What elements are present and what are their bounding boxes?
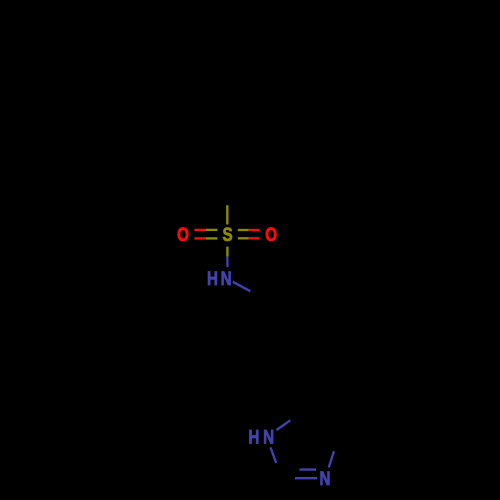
svg-text:H: H xyxy=(248,426,259,448)
svg-text:N: N xyxy=(263,426,274,448)
svg-text:N: N xyxy=(221,268,232,290)
svg-text:N: N xyxy=(320,467,331,489)
svg-text:H: H xyxy=(207,268,218,290)
svg-text:O: O xyxy=(265,223,277,245)
svg-text:S: S xyxy=(223,223,233,245)
svg-text:O: O xyxy=(177,223,189,245)
